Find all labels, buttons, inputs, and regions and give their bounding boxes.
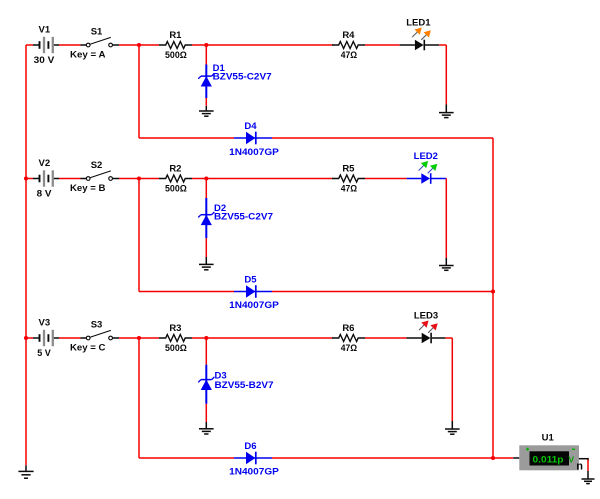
LED LED3 arrow [428,323,438,333]
node junction row1/D1 branch [204,43,208,47]
svg-text:47Ω: 47Ω [341,50,358,61]
wire S2 to R2 [119,178,159,180]
LED LED3 [407,333,446,344]
LED LED2 arrow [428,164,438,174]
diode D5 leads [234,291,272,293]
wire row3 junction down to D6 row [138,338,140,458]
wire U1 to ground [587,460,589,472]
svg-text:BZV55-C2V7: BZV55-C2V7 [213,71,272,82]
svg-text:V2: V2 [38,158,50,169]
wire D6 row right segment to U1 [272,457,513,459]
wire left rail to ground lead [25,465,27,471]
LED LED1 arrow [412,28,422,38]
svg-text:D6: D6 [244,441,256,452]
wire R3 to R6 [192,337,333,339]
resistor R3 500ohm [159,335,192,342]
wire LED3 to ground branch [445,337,452,339]
wire node to D3 [205,338,207,365]
LED LED1 arrow [421,30,431,40]
wire row2 junction down to D5 row [138,179,140,292]
svg-text:1N4007GP: 1N4007GP [229,300,279,311]
diode D6 leads [234,457,272,459]
ground G4 right of U1 [582,479,595,484]
resistor R6 47ohm [332,335,365,342]
svg-text:R1: R1 [169,30,182,41]
svg-text:S1: S1 [91,27,103,38]
wire V3 to S3 [59,337,81,339]
svg-text:D5: D5 [244,274,257,285]
diode D6 [246,452,256,465]
battery V3 5V [33,330,59,346]
resistor R1 500ohm [159,42,192,49]
ground G1 under LED1 [439,113,454,118]
wire row1 junction down to D4 row [138,45,140,138]
wire U1 right lead [579,458,589,460]
ground under D2 [199,264,214,269]
battery V2 8V [33,170,59,186]
svg-text:R3: R3 [169,323,181,334]
ground G2 under LED2 [439,266,454,271]
node D6 row joins right rail [491,456,495,460]
wire V2 to S2 [59,178,81,180]
wire D4 row left segment [139,137,234,139]
wire LED2 ground lead [445,258,447,265]
wire row2 rail to V2 [26,178,33,180]
wire D2 to ground [205,238,207,257]
wire LED1 ground vertical [445,45,447,105]
node junction row3/D3 branch [204,336,208,340]
svg-text:1N4007GP: 1N4007GP [229,467,279,478]
wire U1 left lead [513,457,519,459]
wire LED1 ground lead [445,105,447,113]
svg-text:5 V: 5 V [37,348,51,359]
LED LED2 [407,173,447,184]
resistor R4 47ohm [332,42,365,49]
svg-text:Key = A: Key = A [70,50,106,61]
switch S1 [81,37,120,46]
diode D5 [246,285,256,298]
svg-text:S3: S3 [91,320,103,331]
LED LED1 [400,40,440,51]
wire node to D1 [205,45,207,65]
node junction row2/D2 branch [204,176,208,180]
svg-text:R6: R6 [342,323,354,334]
wire LED3 ground vertical [451,338,453,421]
svg-text:500Ω: 500Ω [165,343,187,354]
wire D5 row left segment [139,291,234,293]
wire LED2 ground vertical [445,179,447,259]
svg-text:LED3: LED3 [414,310,438,321]
node left rail / V2 [24,176,28,180]
svg-text:Key = C: Key = C [70,343,106,354]
ground under D1 [199,111,214,116]
wire D4 row right segment [272,137,493,139]
wire R5 to LED2 [365,178,407,180]
LED LED2 arrow [419,161,429,171]
svg-text:R4: R4 [342,30,355,41]
svg-text:500Ω: 500Ω [165,184,187,195]
node left rail / V3 [24,336,28,340]
switch S2 [81,171,120,180]
battery V1 30V [33,37,59,53]
svg-text:47Ω: 47Ω [341,343,358,354]
node junction row1/D4 branch [137,43,141,47]
ground G0 bottom-left [18,471,33,478]
zener diode D3 [198,365,214,404]
switch S3 [81,330,120,339]
voltmeter U1 [519,445,579,470]
svg-text:LED2: LED2 [414,151,438,162]
diode D4 [246,132,256,145]
diode D4 leads [234,137,272,139]
svg-text:U1: U1 [542,432,555,443]
zener diode D1 [198,65,214,99]
svg-text:S2: S2 [91,160,103,171]
svg-text:V: V [568,455,574,465]
ground under D3 [199,429,214,434]
node junction row2/D5 branch [137,176,141,180]
wire row1 rail to V1 [26,44,33,46]
svg-text:1N4007GP: 1N4007GP [229,147,279,158]
svg-text:47Ω: 47Ω [341,184,358,195]
wire row3 rail to V3 [26,337,33,339]
ground G3 under LED3 [445,429,460,434]
wire D6 row left segment [139,457,234,459]
wire S1 to R1 [119,44,159,46]
resistor R2 500ohm [159,175,192,182]
wire D3 to ground [205,404,207,422]
wire right rail vertical [492,138,494,458]
wire D1 to ground [205,98,207,106]
svg-text:R2: R2 [169,164,181,175]
wire R2 to R5 [192,178,333,180]
wire LED1 to ground branch [439,44,446,46]
LED LED3 arrow [419,321,429,331]
svg-text:V3: V3 [38,318,50,329]
wire R1 to R4 [192,44,333,46]
svg-text:500Ω: 500Ω [165,50,187,61]
svg-text:R5: R5 [342,164,355,175]
svg-text:V1: V1 [38,25,50,36]
svg-text:0.011p: 0.011p [533,455,564,466]
node junction row3/D6 branch [137,336,141,340]
svg-text:BZV55-B2V7: BZV55-B2V7 [215,380,274,391]
svg-text:BZV55-C2V7: BZV55-C2V7 [214,212,273,223]
wire R6 to LED3 [365,337,407,339]
wire R4 to LED1 [365,44,400,46]
zener diode D2 [198,198,214,238]
wire left rail vertical [25,45,27,465]
svg-text:8 V: 8 V [37,189,52,200]
wire S3 to R3 [119,337,159,339]
wire node to D2 [205,179,207,199]
svg-text:Key = B: Key = B [70,183,106,194]
svg-text:LED1: LED1 [406,18,431,29]
resistor R5 47ohm [332,175,365,182]
svg-text:D4: D4 [244,121,257,132]
svg-text:n: n [576,460,583,472]
wire LED3 ground lead [451,421,453,429]
wire V1 to S1 [59,44,81,46]
svg-text:30 V: 30 V [34,55,55,66]
node D5 row joins right rail [491,289,495,293]
wire D5 row right segment [272,291,493,293]
